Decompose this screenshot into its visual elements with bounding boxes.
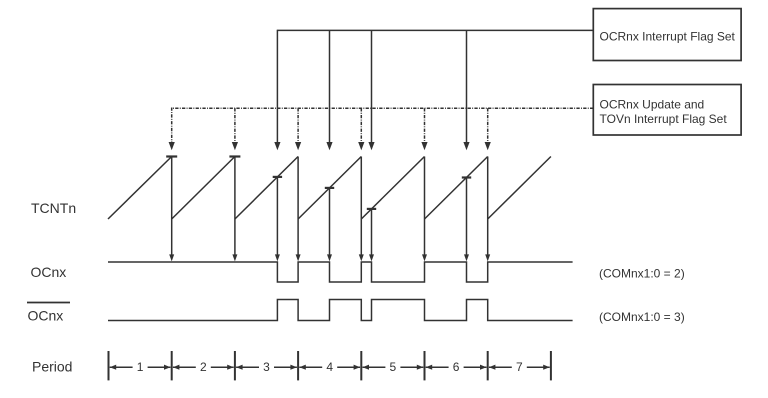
dashed arrow TOP period 5 — [421, 108, 427, 150]
svg-text:(COMnx1:0 = 3): (COMnx1:0 = 3) — [599, 310, 685, 324]
period boundary bar 2 — [171, 351, 173, 380]
label OCnx inverted with overline — [27, 303, 70, 324]
arrow compare match to OCnx period 6 — [464, 178, 469, 262]
svg-text:TOVn Interrupt Flag Set: TOVn Interrupt Flag Set — [600, 112, 728, 126]
svg-text:(COMnx1:0 = 2): (COMnx1:0 = 2) — [599, 266, 685, 280]
solid arrow compare match period 5 — [368, 30, 374, 150]
period boundary bar 5 — [360, 351, 362, 380]
period arrow segment 2 — [173, 365, 234, 370]
svg-text:OCnx: OCnx — [31, 264, 67, 280]
tick compare match period 4 — [325, 187, 334, 189]
dashed arrow TOP period 1 — [169, 108, 175, 151]
solid arrow compare match period 6 — [463, 30, 469, 150]
solid arrow compare match period 4 — [326, 30, 332, 150]
tick compare match period 6 — [462, 176, 471, 178]
OCnx inverted waveform (COMnx1:0 = 3) — [108, 300, 573, 321]
svg-text:5: 5 — [390, 360, 397, 374]
period arrow segment 6 — [426, 365, 487, 370]
period number 7 — [512, 359, 527, 374]
wire dashed connector from OCRnx Update box — [172, 107, 594, 109]
arrow TOP drop to OCnx period 4 — [359, 157, 364, 262]
dashed arrow TOP period 4 — [358, 108, 364, 150]
arrow TOP drop to OCnx period 3 — [296, 157, 301, 262]
svg-text:OCRnx Update and: OCRnx Update and — [600, 98, 705, 112]
arrow TOP drop to OCnx period 1 — [169, 157, 174, 262]
svg-text:7: 7 — [516, 360, 523, 374]
period arrow segment 7 — [489, 365, 550, 370]
dashed arrow TOP period 2 — [232, 108, 238, 150]
svg-text:3: 3 — [263, 360, 270, 374]
dashed arrow TOP period 3 — [295, 108, 301, 150]
tick compare match period 3 — [273, 176, 282, 178]
svg-text:OCRnx Interrupt Flag Set: OCRnx Interrupt Flag Set — [600, 30, 736, 44]
svg-text:TCNTn: TCNTn — [31, 200, 76, 216]
TCNTn sawtooth slope 3 — [235, 157, 298, 220]
period boundary bar 4 — [297, 351, 299, 380]
period number 3 — [259, 359, 274, 374]
period boundary bar 6 — [424, 351, 426, 380]
OCnx waveform (COMnx1:0 = 2) — [108, 262, 573, 282]
TCNTn sawtooth slope 7 — [488, 157, 551, 220]
svg-text:2: 2 — [200, 360, 207, 374]
period number 4 — [322, 359, 337, 374]
period boundary bar 3 — [234, 351, 236, 380]
tick OCRnx=TOP peak 2 — [229, 155, 240, 157]
box OCRnx Update and TOVn Interrupt Flag Set — [593, 85, 741, 136]
period number 6 — [449, 359, 464, 374]
box OCRnx Interrupt Flag Set — [593, 9, 741, 61]
arrow compare match to OCnx period 5 — [369, 209, 374, 262]
period boundary bar 1 — [108, 351, 110, 380]
TCNTn sawtooth slope 1 — [108, 157, 172, 220]
period arrow segment 3 — [236, 365, 297, 370]
period arrow segment 5 — [363, 365, 424, 370]
svg-text:6: 6 — [453, 360, 460, 374]
period arrow segment 4 — [299, 365, 360, 370]
wire solid connector from OCRnx Interrupt Flag Set box — [277, 29, 593, 31]
arrow TOP drop to OCnx period 6 — [485, 157, 490, 262]
period scale — [109, 351, 551, 380]
arrow compare match to OCnx period 3 — [275, 177, 280, 262]
period boundary bar 8 — [550, 351, 552, 380]
arrow compare match to OCnx period 4 — [327, 188, 332, 262]
tick OCRnx=TOP peak 1 — [166, 155, 177, 157]
svg-text:4: 4 — [326, 360, 333, 374]
TCNTn sawtooth slope 4 — [298, 157, 361, 220]
period arrow segment 1 — [110, 365, 171, 370]
period boundary bar 7 — [487, 351, 489, 380]
period number 5 — [385, 359, 400, 374]
arrow TOP drop to OCnx period 2 — [232, 157, 237, 262]
TCNTn sawtooth slope 2 — [172, 157, 235, 220]
TCNTn sawtooth slope 5 — [361, 157, 424, 220]
period number 1 — [133, 359, 148, 374]
svg-text:1: 1 — [137, 360, 144, 374]
svg-text:Period: Period — [32, 359, 72, 375]
period number 2 — [196, 359, 211, 374]
dashed arrow TOP period 6 — [485, 108, 491, 150]
TCNTn sawtooth slope 6 — [425, 157, 488, 220]
tick compare match period 5 — [367, 208, 376, 210]
solid arrow compare match period 3 — [274, 30, 280, 151]
svg-text:OCnx: OCnx — [28, 308, 64, 324]
arrow TOP drop to OCnx period 5 — [422, 157, 427, 262]
